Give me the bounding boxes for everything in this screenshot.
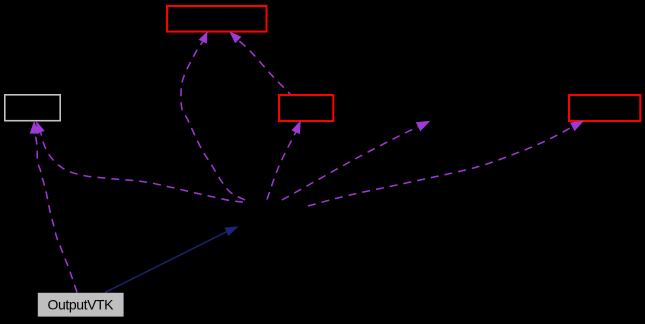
svg-text:OutputVTK: OutputVTK [47, 297, 114, 313]
